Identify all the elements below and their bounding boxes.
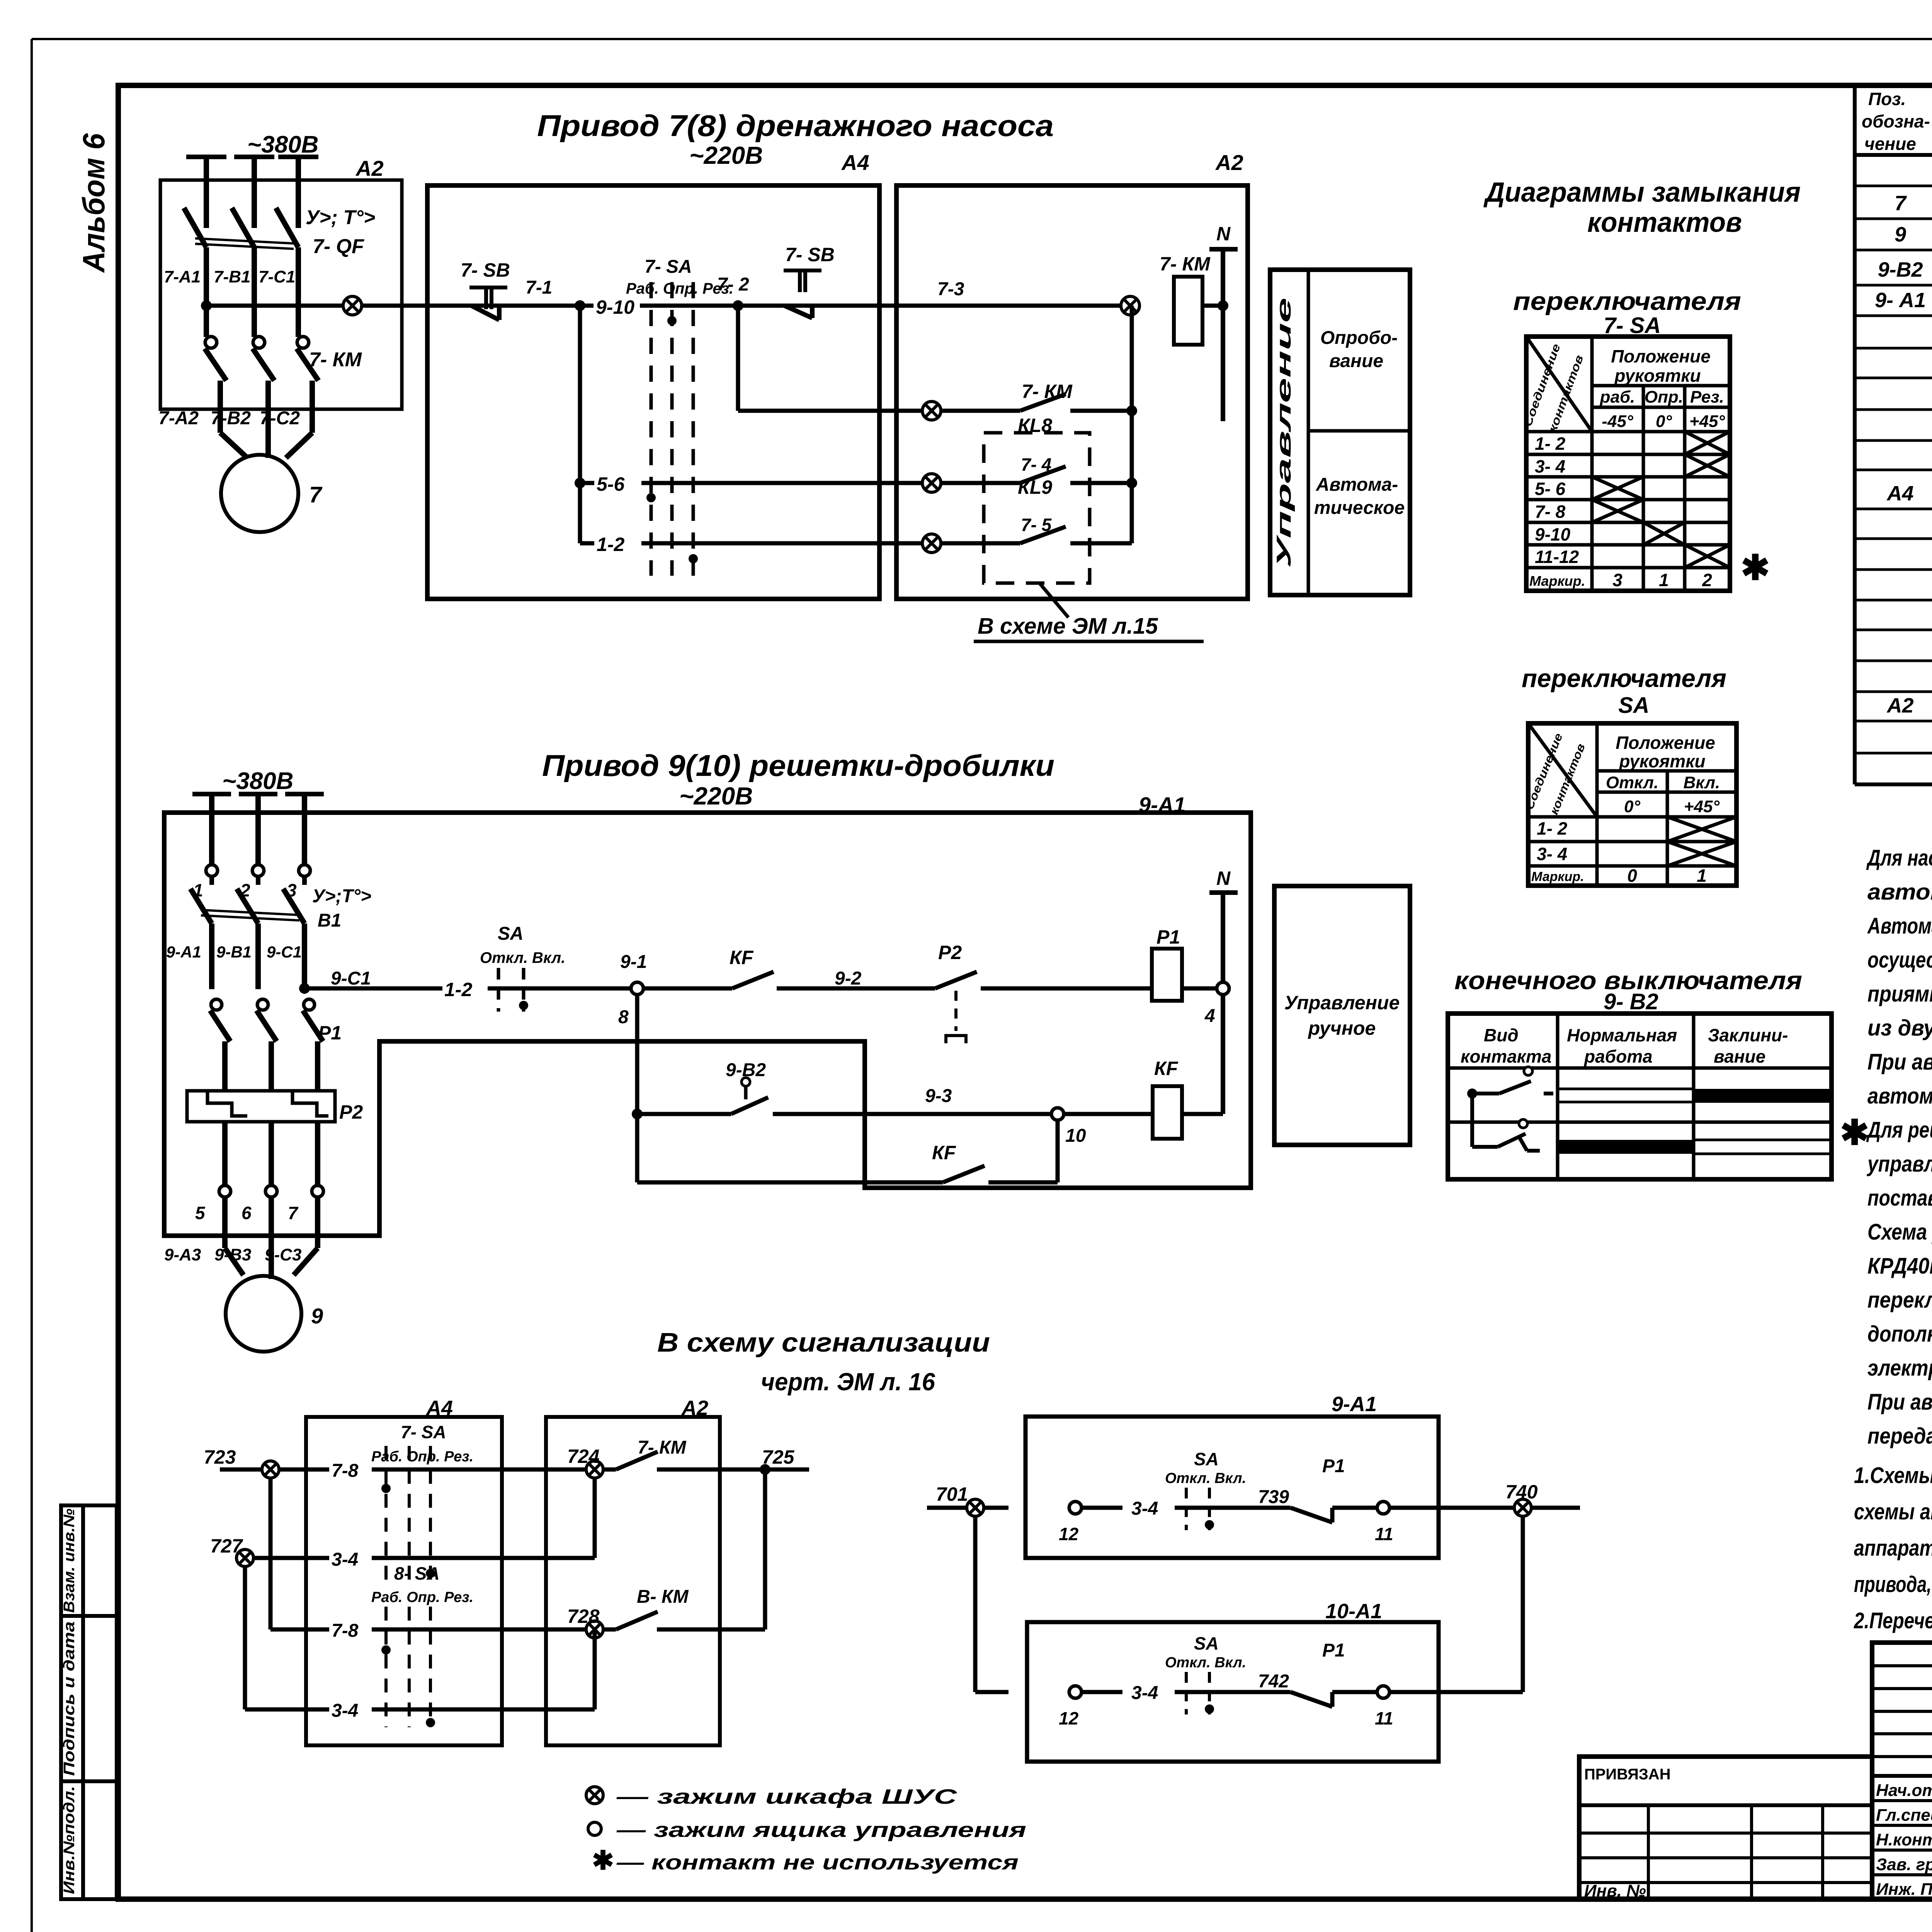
svg-text:9: 9 — [311, 1304, 323, 1328]
svg-text:7- SА: 7- SА — [645, 257, 692, 277]
svg-text:автоматически включается рез: автоматически включается резервный. — [1867, 1083, 1932, 1109]
svg-text:739: 739 — [1258, 1487, 1289, 1507]
svg-text:7-1: 7-1 — [526, 277, 552, 298]
svg-text:7- КМ: 7- КМ — [638, 1437, 687, 1458]
svg-text:7-В2: 7-В2 — [211, 408, 251, 429]
svg-text:7- SB: 7- SB — [785, 244, 835, 265]
svg-text:9-2: 9-2 — [835, 968, 862, 989]
svg-text:контактов: контактов — [1587, 207, 1742, 238]
svg-text:9-В2: 9-В2 — [726, 1060, 766, 1080]
svg-text:1: 1 — [193, 880, 203, 900]
svg-text:Н.контр.: Н.контр. — [1876, 1830, 1932, 1849]
svg-text:А2: А2 — [355, 156, 384, 180]
svg-text:Р2: Р2 — [938, 942, 962, 963]
svg-text:0°: 0° — [1656, 412, 1672, 431]
svg-text:8: 8 — [618, 1007, 629, 1027]
svg-text:9- А1: 9- А1 — [1875, 289, 1926, 312]
svg-text:7- 5: 7- 5 — [1021, 515, 1052, 535]
svg-text:9-В2: 9-В2 — [1878, 258, 1923, 281]
svg-text:3: 3 — [287, 880, 297, 900]
svg-text:Откл. Вкл.: Откл. Вкл. — [1165, 1655, 1246, 1671]
svg-text:Инв.№подл.: Инв.№подл. — [61, 1786, 78, 1894]
svg-text:701: 701 — [936, 1483, 968, 1505]
svg-text:Нормальная: Нормальная — [1567, 1025, 1677, 1045]
svg-text:-45°: -45° — [1602, 412, 1633, 431]
svg-text:КF: КF — [932, 1142, 956, 1163]
svg-text:7: 7 — [288, 1203, 299, 1223]
svg-text:~380В: ~380В — [222, 768, 293, 794]
svg-text:✱: ✱ — [1741, 549, 1770, 587]
svg-text:автоматическое и опробование: автоматическое и опробование. — [1867, 879, 1932, 905]
svg-text:Привод 7(8) дренажного насо: Привод 7(8) дренажного насоса — [537, 109, 1054, 143]
svg-text:Р1: Р1 — [1156, 926, 1180, 948]
svg-text:поставляемого комплектно с: поставляемого комплектно с решеткой-дроб… — [1867, 1185, 1932, 1211]
svg-text:вание: вание — [1329, 351, 1383, 371]
svg-text:5- 6: 5- 6 — [1535, 479, 1566, 499]
svg-text:Зав. гр.: Зав. гр. — [1876, 1855, 1932, 1874]
svg-text:рукоятки: рукоятки — [1618, 751, 1705, 771]
svg-text:КL9: КL9 — [1018, 476, 1052, 498]
svg-text:5: 5 — [195, 1203, 206, 1223]
svg-text:9-А1: 9-А1 — [1332, 1393, 1377, 1416]
svg-text:7-8: 7-8 — [332, 1461, 359, 1481]
svg-text:При аварийном отключении ра: При аварийном отключении рабочего насоса — [1867, 1049, 1932, 1075]
svg-text:SА: SА — [498, 923, 524, 944]
svg-text:У>; Т°>: У>; Т°> — [306, 206, 375, 229]
svg-text:Автома-: Автома- — [1316, 474, 1398, 495]
svg-text:SА: SА — [1194, 1633, 1219, 1653]
svg-text:аппаратов и маркировки цеп: аппаратов и маркировки цепей, обозначающ… — [1854, 1536, 1932, 1561]
svg-text:электродвигателя при перее: электродвигателя при переерузке. — [1867, 1355, 1932, 1381]
svg-text:— зажим шкафа ШУС: — зажим шкафа ШУС — [616, 1785, 957, 1808]
svg-text:В- КМ: В- КМ — [637, 1587, 689, 1607]
svg-text:7-3: 7-3 — [937, 279, 964, 299]
svg-text:2.Перечень элементов привед: 2.Перечень элементов приведен для привод… — [1854, 1608, 1932, 1633]
svg-text:0: 0 — [1627, 866, 1637, 886]
svg-text:управление, осуществляемое с: управление, осуществляемое с ящика управ… — [1866, 1151, 1932, 1177]
svg-text:5-6: 5-6 — [597, 473, 625, 495]
svg-text:7-А2: 7-А2 — [158, 408, 199, 429]
svg-text:7- SА: 7- SА — [401, 1422, 446, 1442]
svg-text:SА: SА — [1618, 693, 1650, 718]
svg-text:9-1: 9-1 — [620, 952, 647, 972]
svg-text:Р1: Р1 — [1322, 1640, 1345, 1661]
svg-text:2: 2 — [240, 880, 250, 900]
svg-text:9-10: 9-10 — [1535, 524, 1570, 544]
svg-text:переключателя: переключателя — [1513, 287, 1741, 315]
svg-text:А4: А4 — [1886, 482, 1913, 505]
svg-text:Маркир.: Маркир. — [1531, 869, 1584, 884]
svg-text:9-А3: 9-А3 — [164, 1245, 201, 1264]
svg-text:724: 724 — [567, 1446, 599, 1467]
svg-text:привода, соответственно меня: привода, соответственно меняются на 8 и … — [1854, 1572, 1932, 1597]
svg-text:обозна-: обозна- — [1862, 111, 1930, 131]
svg-text:дополнительного реле КF дл: дополнительного реле КF для аварийного о… — [1867, 1321, 1932, 1347]
svg-text:Инж. Пк.: Инж. Пк. — [1876, 1880, 1932, 1899]
svg-text:чение: чение — [1864, 134, 1916, 154]
svg-text:9- В2: 9- В2 — [1604, 989, 1658, 1014]
svg-text:9-3: 9-3 — [925, 1086, 952, 1106]
svg-text:Положение: Положение — [1611, 346, 1711, 366]
svg-text:Опр.: Опр. — [1645, 388, 1683, 406]
svg-text:Управление: Управление — [1273, 298, 1295, 568]
svg-text:КF: КF — [730, 947, 754, 968]
svg-text:— зажим ящика управлени: — зажим ящика управления — [616, 1818, 1026, 1842]
svg-text:12: 12 — [1059, 1708, 1079, 1728]
svg-text:+45°: +45° — [1684, 797, 1720, 816]
svg-text:7-8: 7-8 — [332, 1621, 359, 1641]
svg-text:Откл. Вкл.: Откл. Вкл. — [1165, 1470, 1246, 1486]
svg-text:740: 740 — [1505, 1481, 1538, 1503]
svg-text:работа: работа — [1583, 1046, 1653, 1066]
svg-text:Раб. Опр. Рез.: Раб. Опр. Рез. — [371, 1589, 473, 1605]
svg-text:N: N — [1216, 223, 1231, 245]
svg-text:Привод 9(10) решетки-дробил: Привод 9(10) решетки-дробилки — [542, 748, 1054, 782]
svg-text:тическое: тическое — [1314, 498, 1405, 518]
svg-text:1-2: 1-2 — [597, 534, 624, 555]
svg-text:Р1: Р1 — [318, 1022, 342, 1044]
svg-text:Управление: Управление — [1284, 992, 1400, 1014]
svg-text:~220В: ~220В — [679, 782, 753, 810]
svg-text:рукоятки: рукоятки — [1614, 366, 1701, 386]
svg-text:1- 2: 1- 2 — [1535, 434, 1566, 454]
svg-text:10: 10 — [1065, 1126, 1086, 1146]
svg-text:3-4: 3-4 — [332, 1549, 358, 1570]
svg-text:схемы аналогичны. Цифры 7 и: схемы аналогичны. Цифры 7 и 9 в левой ча… — [1854, 1499, 1932, 1524]
svg-text:Диаграммы замыкания: Диаграммы замыкания — [1483, 177, 1801, 208]
svg-text:Для насосов предусматривается: Для насосов предусматривается два вида у… — [1866, 845, 1932, 871]
svg-text:9-В1: 9-В1 — [216, 943, 252, 961]
svg-text:Р2: Р2 — [339, 1101, 363, 1123]
svg-text:3- 4: 3- 4 — [1535, 456, 1565, 476]
svg-text:— контакт не используется: — контакт не используется — [616, 1851, 1019, 1874]
svg-text:6: 6 — [241, 1203, 252, 1223]
svg-text:12: 12 — [1059, 1524, 1079, 1544]
svg-text:Взам. инв.№: Взам. инв.№ — [61, 1509, 78, 1613]
svg-text:10-А1: 10-А1 — [1325, 1600, 1382, 1623]
svg-text:А2: А2 — [1215, 150, 1243, 175]
svg-text:Опробо-: Опробо- — [1320, 328, 1398, 348]
svg-text:0°: 0° — [1624, 797, 1640, 816]
svg-text:из двух режимов: рабочий: из двух режимов: рабочий и резервный. — [1867, 1015, 1932, 1041]
svg-text:+45°: +45° — [1689, 412, 1725, 431]
svg-text:742: 742 — [1258, 1671, 1289, 1692]
svg-text:Нач.отд.: Нач.отд. — [1876, 1781, 1932, 1800]
svg-text:Альбом 6: Альбом 6 — [77, 133, 111, 273]
svg-text:9-В3: 9-В3 — [214, 1245, 251, 1264]
svg-text:7- КМ: 7- КМ — [1160, 253, 1211, 275]
svg-text:3- 4: 3- 4 — [1537, 844, 1567, 864]
svg-text:контакта: контакта — [1461, 1046, 1551, 1066]
svg-text:черт. ЭМ л. 16: черт. ЭМ л. 16 — [761, 1368, 935, 1396]
svg-text:Для решеток - дробилок преду: Для решеток - дробилок предусматривается… — [1866, 1117, 1932, 1143]
svg-text:7: 7 — [309, 482, 323, 507]
svg-text:9: 9 — [1895, 223, 1906, 246]
svg-text:7- КМ: 7- КМ — [1022, 381, 1073, 402]
svg-text:7- QF: 7- QF — [313, 235, 364, 258]
svg-text:3: 3 — [1612, 570, 1622, 590]
svg-text:Вкл.: Вкл. — [1684, 773, 1720, 792]
svg-text:7-С1: 7-С1 — [259, 267, 295, 286]
svg-text:ручное: ручное — [1308, 1017, 1376, 1039]
svg-text:В схему сигнализации: В схему сигнализации — [657, 1327, 990, 1357]
svg-text:11: 11 — [1375, 1708, 1393, 1728]
svg-text:1: 1 — [1659, 570, 1669, 590]
svg-text:переключателя SА взамен кн: переключателя SА взамен кнопок управлени… — [1867, 1287, 1932, 1313]
svg-text:Инв. №: Инв. № — [1584, 1881, 1646, 1900]
svg-text:передается сигнал в схему: передается сигнал в схему аварийной сигн… — [1867, 1423, 1932, 1449]
svg-text:8- SА: 8- SА — [394, 1563, 440, 1583]
svg-text:Вид: Вид — [1484, 1025, 1519, 1045]
svg-text:~380В: ~380В — [247, 131, 318, 158]
svg-text:Схема управления выполнена: Схема управления выполнена на основании … — [1867, 1219, 1932, 1245]
svg-text:Рез.: Рез. — [1690, 388, 1724, 406]
svg-text:переключателя: переключателя — [1522, 664, 1726, 692]
svg-text:9-С1: 9-С1 — [267, 943, 302, 961]
svg-text:1: 1 — [1697, 866, 1707, 886]
svg-text:Автоматическое управление др: Автоматическое управление дренажными нас… — [1867, 913, 1932, 939]
svg-text:Поз.: Поз. — [1868, 89, 1906, 109]
svg-text:В1: В1 — [318, 910, 341, 931]
svg-text:А2: А2 — [1886, 694, 1913, 717]
svg-text:7-С2: 7-С2 — [260, 408, 300, 429]
svg-text:SА: SА — [1194, 1449, 1219, 1469]
svg-text:раб.: раб. — [1600, 388, 1635, 406]
svg-text:✱: ✱ — [592, 1846, 614, 1875]
svg-text:Заклини-: Заклини- — [1708, 1025, 1788, 1045]
svg-text:N: N — [1216, 867, 1231, 889]
svg-text:9-А1: 9-А1 — [166, 943, 201, 961]
svg-text:7: 7 — [1895, 192, 1907, 215]
svg-text:3-4: 3-4 — [1131, 1683, 1158, 1703]
svg-text:728: 728 — [567, 1605, 600, 1627]
svg-text:725: 725 — [762, 1446, 795, 1468]
svg-text:Откл.: Откл. — [1606, 773, 1658, 792]
svg-text:7- КМ: 7- КМ — [309, 349, 362, 371]
svg-text:Откл. Вкл.: Откл. Вкл. — [480, 949, 565, 966]
svg-text:ПРИВЯЗАН: ПРИВЯЗАН — [1584, 1766, 1671, 1783]
svg-text:3-4: 3-4 — [332, 1701, 358, 1721]
svg-text:11: 11 — [1375, 1524, 1393, 1544]
svg-text:3-4: 3-4 — [1131, 1498, 1158, 1519]
svg-text:7- 4: 7- 4 — [1021, 454, 1051, 474]
svg-text:Подпись и дата: Подпись и дата — [61, 1621, 78, 1776]
svg-text:При аварийном отключении эл: При аварийном отключении электродвигател… — [1867, 1389, 1932, 1415]
svg-text:КL8: КL8 — [1018, 415, 1052, 436]
svg-text:Гл.спец.: Гл.спец. — [1876, 1806, 1932, 1825]
svg-text:~220В: ~220В — [689, 141, 763, 169]
svg-text:7- 8: 7- 8 — [1535, 502, 1566, 522]
svg-text:У>;Т°>: У>;Т°> — [312, 886, 371, 906]
svg-text:КF: КF — [1154, 1058, 1179, 1079]
svg-text:Р1: Р1 — [1322, 1456, 1345, 1476]
svg-text:7- SB: 7- SB — [461, 259, 510, 281]
svg-text:А4: А4 — [841, 150, 869, 175]
svg-text:осуществляется в зависимости: осуществляется в зависимости от уровней … — [1867, 947, 1932, 973]
svg-text:КРД40м - 00.00.00ЭЗ НИКТИ ГХ: КРД40м - 00.00.00ЭЗ НИКТИ ГХ г. Киев с у… — [1867, 1253, 1932, 1279]
svg-text:вание: вание — [1714, 1046, 1765, 1066]
svg-text:1-2: 1-2 — [444, 979, 472, 1000]
svg-text:1- 2: 1- 2 — [1537, 818, 1568, 838]
svg-text:7-В1: 7-В1 — [214, 267, 250, 286]
svg-text:9-С3: 9-С3 — [265, 1245, 301, 1264]
svg-text:приямке. Каждый насос может: приямке. Каждый насос может работать в о… — [1867, 981, 1932, 1007]
svg-text:Раб. Опр. Рез.: Раб. Опр. Рез. — [626, 280, 733, 297]
svg-text:7-А1: 7-А1 — [164, 267, 201, 286]
svg-text:4: 4 — [1204, 1006, 1215, 1026]
svg-text:2: 2 — [1702, 570, 1712, 590]
svg-text:1.Схемы приведены для приво: 1.Схемы приведены для приводов 7 и 9. Дл… — [1854, 1463, 1932, 1488]
svg-text:Маркир.: Маркир. — [1529, 573, 1585, 589]
svg-text:Положение: Положение — [1616, 733, 1715, 753]
svg-text:723: 723 — [204, 1446, 236, 1468]
svg-text:В схеме ЭМ л.15: В схеме ЭМ л.15 — [978, 614, 1158, 639]
svg-text:9-10: 9-10 — [596, 296, 634, 318]
svg-text:9-С1: 9-С1 — [331, 968, 371, 989]
svg-text:✱: ✱ — [1840, 1114, 1869, 1152]
svg-text:11-12: 11-12 — [1535, 547, 1579, 567]
